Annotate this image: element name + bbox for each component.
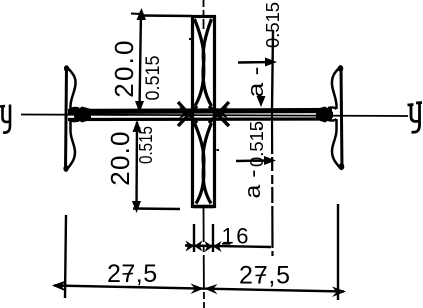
svg-text:20.0: 20.0 <box>105 130 135 185</box>
svg-text:a -: a - <box>240 170 265 199</box>
svg-text:0.515: 0.515 <box>136 126 156 164</box>
svg-text:a -: a - <box>243 67 268 98</box>
svg-text:0.515: 0.515 <box>263 2 283 48</box>
svg-text:20.0: 20.0 <box>109 38 139 97</box>
svg-text:16: 16 <box>222 224 251 249</box>
svg-text:0.515: 0.515 <box>143 56 164 101</box>
svg-text:0.515: 0.515 <box>247 121 267 167</box>
